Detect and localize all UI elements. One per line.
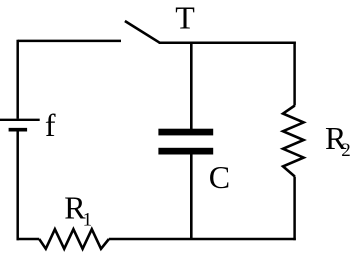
wire: right vertical from R2 to bottom corner xyxy=(293,177,296,241)
resistor R2 zigzag xyxy=(283,106,304,177)
svg-text:f: f xyxy=(45,107,56,143)
capacitor C top plate xyxy=(158,129,213,136)
wire: top-left horizontal from left branch to switch contact xyxy=(18,40,121,43)
wire: left vertical down to battery xyxy=(16,40,19,119)
switch T blade (open) xyxy=(125,21,160,43)
wire: capacitor branch upper vertical xyxy=(190,43,193,129)
svg-text:1: 1 xyxy=(83,210,93,231)
wire: bottom rail left segment to R1 xyxy=(17,238,40,241)
svg-text:T: T xyxy=(175,0,195,36)
battery f: short thick plate (negative) xyxy=(9,128,28,132)
wire: bottom rail from R1 to bottom-right corner xyxy=(109,238,296,241)
capacitor C bottom plate xyxy=(158,148,213,155)
wire: left vertical below battery to bottom rail xyxy=(16,130,19,241)
wire: right vertical from top corner to R2 xyxy=(293,42,296,106)
svg-text:2: 2 xyxy=(341,140,351,161)
battery f: long plate (positive) xyxy=(0,119,40,121)
wire: capacitor branch lower vertical xyxy=(190,155,193,240)
resistor R1 zigzag xyxy=(39,229,109,249)
svg-text:C: C xyxy=(209,159,230,195)
wire: top horizontal from switch pivot to right corner xyxy=(159,42,296,45)
